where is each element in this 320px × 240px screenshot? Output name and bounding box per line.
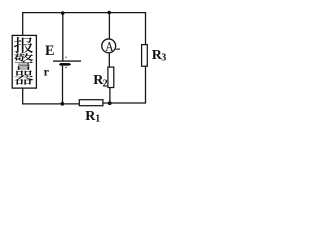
speck above battery plate [65, 56, 67, 58]
svg-text:E: E [45, 43, 54, 59]
resistor R2 body [108, 67, 114, 87]
wire right upper (top wire to R3) [145, 13, 147, 45]
wire left lower (alarm box to bottom wire) [22, 88, 24, 104]
svg-text:3: 3 [161, 53, 166, 64]
junction node bottom R2 [108, 101, 112, 105]
wire ammeter branch upper [108, 13, 110, 39]
wire left upper (top wire to alarm box) [22, 13, 24, 36]
svg-text:2: 2 [103, 79, 108, 90]
ammeter circle U [102, 39, 116, 53]
wire R2 to bottom [109, 88, 111, 104]
alarm box text char qi (器) [14, 70, 33, 85]
wire battery branch upper [62, 13, 64, 61]
alarm box text char jing (警) [14, 53, 33, 70]
junction node bottom battery [61, 102, 65, 106]
alarm device box [12, 35, 36, 88]
junction node top battery [61, 11, 65, 15]
battery E short thick plate [59, 63, 71, 66]
wire battery branch lower [62, 65, 64, 104]
wire top [22, 12, 146, 14]
ammeter right terminal tick [116, 48, 120, 50]
wire bottom left segment [22, 103, 79, 105]
wire right lower (R3 to bottom wire) [145, 66, 147, 103]
wire ammeter to R2 [108, 53, 110, 67]
speck below battery plate [65, 67, 67, 69]
resistor R1 body [79, 100, 103, 106]
resistor R3 body [142, 45, 148, 67]
wire bottom right segment [103, 102, 146, 104]
svg-text:r: r [44, 65, 50, 79]
junction node top ammeter [107, 11, 111, 15]
alarm box text char bao (报) [14, 37, 33, 53]
svg-text:1: 1 [95, 113, 100, 124]
battery E long plate [53, 60, 81, 61]
svg-text:A: A [105, 39, 114, 54]
